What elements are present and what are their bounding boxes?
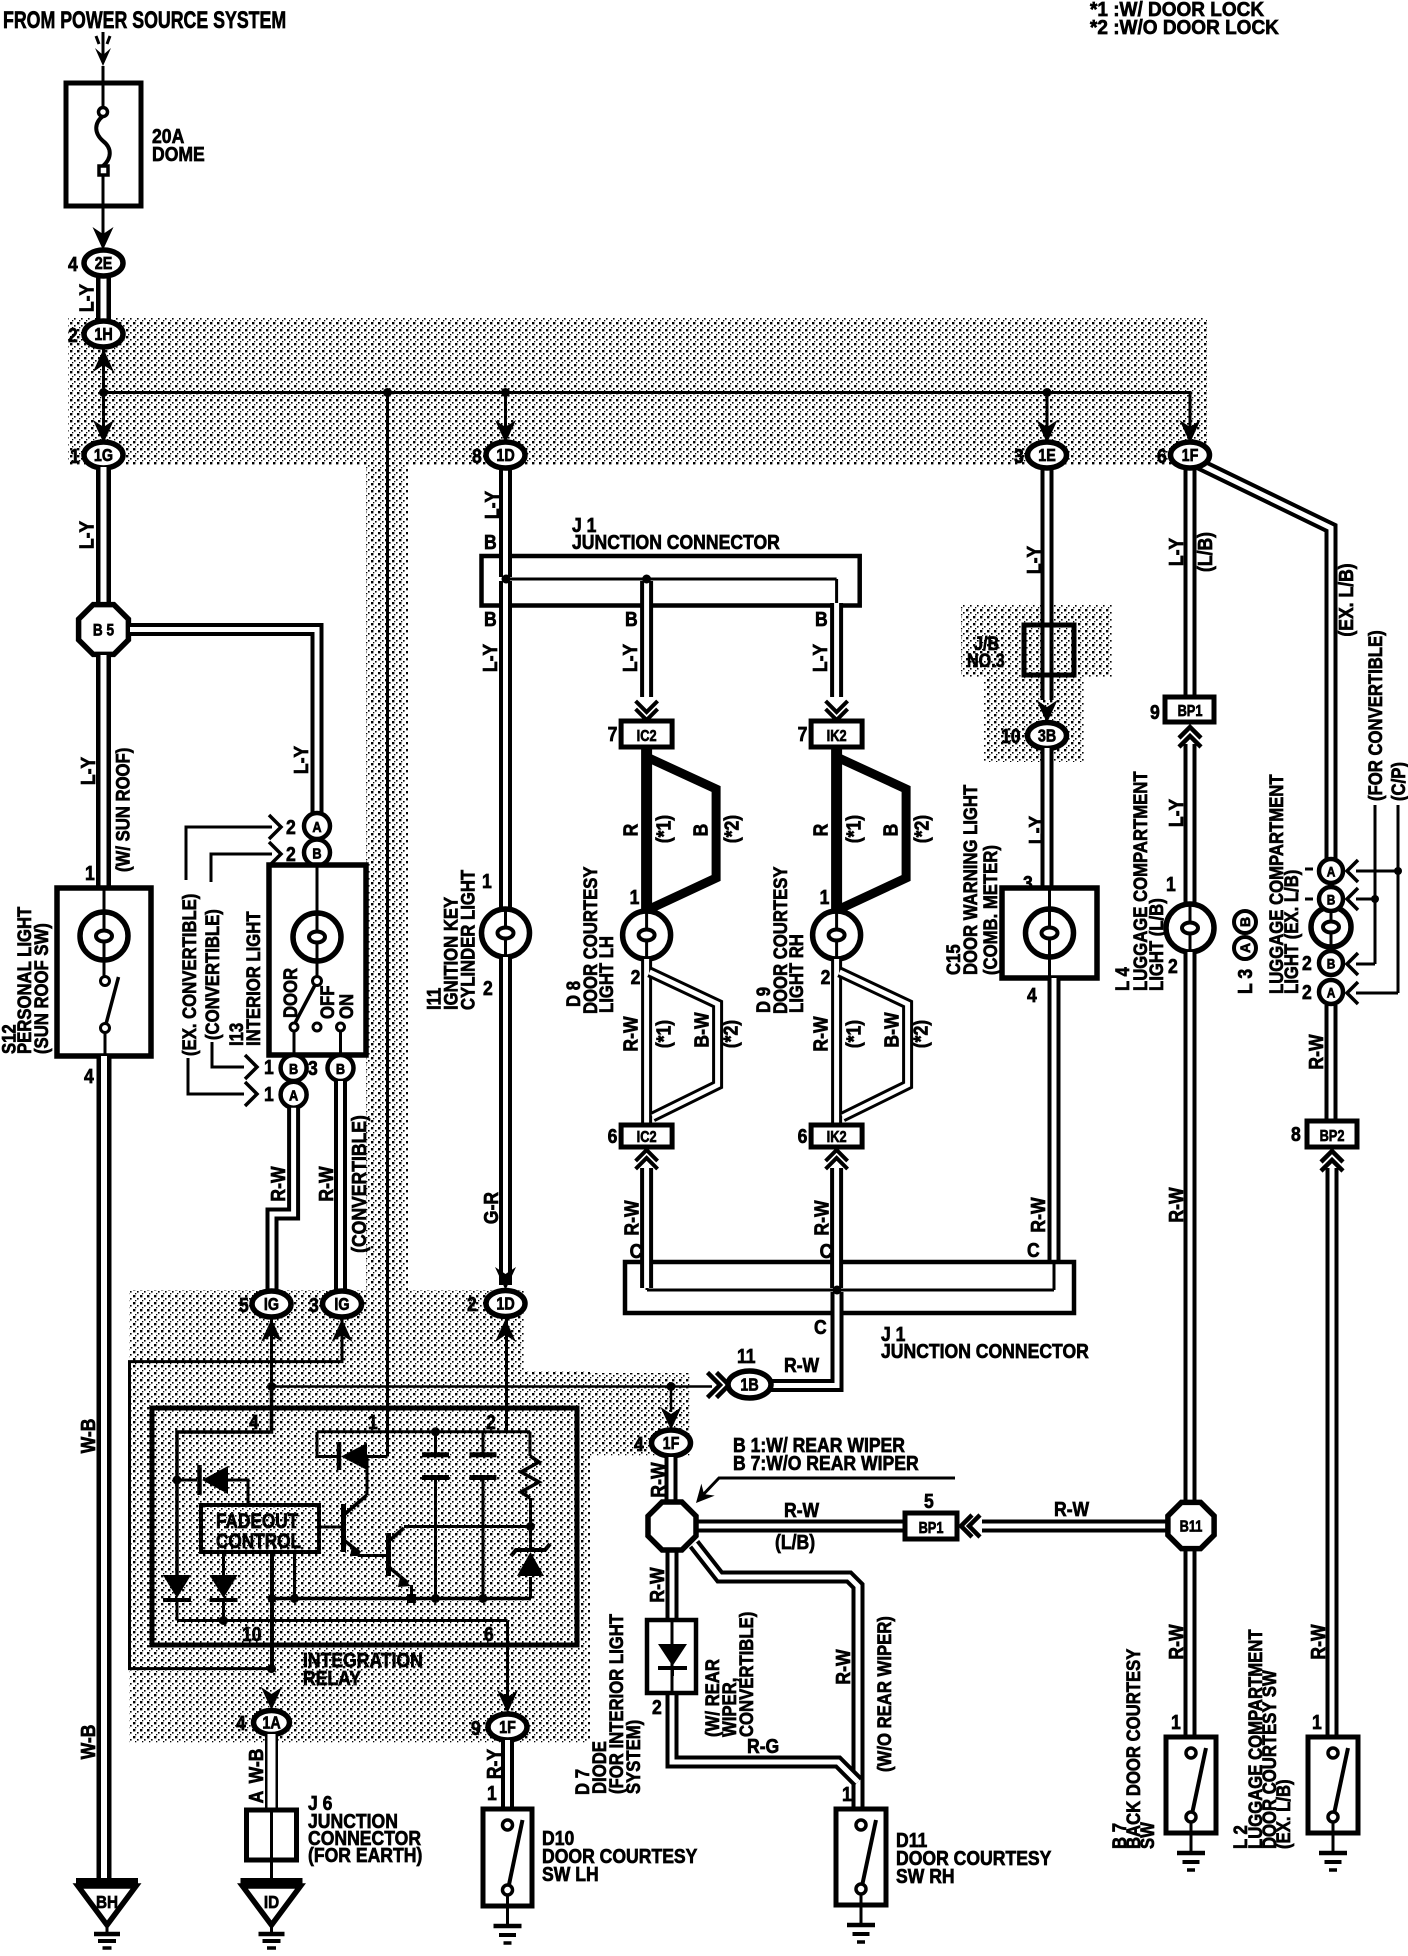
svg-text:1H: 1H <box>94 326 112 345</box>
svg-text:B: B <box>879 824 901 837</box>
svg-text:C: C <box>814 1316 827 1338</box>
svg-text:JUNCTION CONNECTOR: JUNCTION CONNECTOR <box>881 1340 1089 1362</box>
svg-text:(*2): (*2) <box>719 1020 741 1048</box>
svg-text:A: A <box>289 1087 298 1104</box>
svg-text:C: C <box>1027 1239 1040 1261</box>
svg-text:(*2): (*2) <box>910 815 932 843</box>
svg-text:R-W: R-W <box>267 1166 289 1201</box>
svg-text:2: 2 <box>286 843 296 865</box>
svg-text:(*1): (*1) <box>652 1020 674 1048</box>
svg-text:4: 4 <box>249 1411 259 1433</box>
svg-text:R-W: R-W <box>619 1016 641 1051</box>
svg-text:LIGHT (L/B): LIGHT (L/B) <box>1146 898 1167 991</box>
svg-text:W-B: W-B <box>77 1725 99 1760</box>
svg-text:(*1): (*1) <box>842 815 864 843</box>
svg-text:*2 :W/O DOOR LOCK: *2 :W/O DOOR LOCK <box>1090 17 1279 40</box>
svg-text:L-Y: L-Y <box>479 643 501 672</box>
svg-text:A: A <box>1237 943 1253 953</box>
svg-text:6: 6 <box>608 1125 618 1147</box>
svg-text:1: 1 <box>264 1083 274 1105</box>
svg-text:2: 2 <box>286 816 296 838</box>
svg-text:IK2: IK2 <box>827 728 847 746</box>
svg-text:(*1): (*1) <box>842 1020 864 1048</box>
svg-text:1D: 1D <box>496 1295 514 1314</box>
svg-text:BACK DOOR COURTESY: BACK DOOR COURTESY <box>1123 1649 1144 1849</box>
svg-text:B 7:W/O REAR WIPER: B 7:W/O REAR WIPER <box>733 1452 919 1474</box>
svg-text:L-Y: L-Y <box>1165 798 1187 827</box>
svg-text:1F: 1F <box>1182 447 1199 466</box>
svg-text:R-Y: R-Y <box>483 1748 505 1779</box>
svg-text:SW: SW <box>1137 1822 1158 1849</box>
svg-text:(*1): (*1) <box>652 815 674 843</box>
svg-text:L-Y: L-Y <box>1023 545 1045 574</box>
svg-text:W-B: W-B <box>245 1749 267 1784</box>
svg-text:B: B <box>484 608 497 630</box>
svg-text:R-W: R-W <box>832 1649 854 1684</box>
svg-text:B11: B11 <box>1180 1518 1203 1536</box>
svg-text:B-W: B-W <box>690 1012 712 1047</box>
svg-text:R-W: R-W <box>1305 1034 1327 1069</box>
svg-text:L-Y: L-Y <box>619 643 641 672</box>
svg-text:IK2: IK2 <box>827 1129 847 1147</box>
svg-text:RELAY: RELAY <box>303 1667 361 1689</box>
svg-text:R-W: R-W <box>1027 1197 1049 1232</box>
svg-text:(SUN ROOF SW): (SUN ROOF SW) <box>31 923 52 1054</box>
svg-text:BH: BH <box>96 1892 118 1912</box>
svg-text:2: 2 <box>486 1411 496 1433</box>
svg-text:B: B <box>625 608 638 630</box>
svg-text:DOOR WARNING LIGHT: DOOR WARNING LIGHT <box>960 785 981 975</box>
svg-text:(W/ SUN ROOF): (W/ SUN ROOF) <box>112 748 133 872</box>
svg-text:1E: 1E <box>1038 447 1056 466</box>
svg-text:R: R <box>619 823 641 836</box>
svg-text:(C/P): (C/P) <box>1388 762 1408 801</box>
svg-text:SW RH: SW RH <box>896 1865 955 1887</box>
svg-text:B: B <box>312 844 321 861</box>
svg-text:1: 1 <box>70 445 80 467</box>
svg-text:INTERIOR LIGHT: INTERIOR LIGHT <box>243 911 264 1046</box>
svg-text:3: 3 <box>1014 445 1024 467</box>
svg-text:CYLINDER LIGHT: CYLINDER LIGHT <box>457 870 478 1010</box>
svg-text:1A: 1A <box>262 1714 281 1733</box>
svg-text:R-W: R-W <box>646 1567 668 1602</box>
svg-text:DOOR: DOOR <box>280 968 301 1018</box>
svg-text:8: 8 <box>1291 1123 1301 1145</box>
svg-text:ON: ON <box>336 994 357 1019</box>
svg-text:B: B <box>484 531 497 553</box>
svg-text:IC2: IC2 <box>637 728 657 746</box>
svg-text:2: 2 <box>821 966 831 988</box>
svg-text:2E: 2E <box>95 255 113 274</box>
svg-text:R-W: R-W <box>647 1462 669 1497</box>
svg-text:R-W: R-W <box>1165 1624 1187 1659</box>
svg-text:1B: 1B <box>740 1376 758 1395</box>
svg-text:R-W: R-W <box>1307 1624 1329 1659</box>
svg-text:6: 6 <box>1157 445 1167 467</box>
svg-text:1: 1 <box>264 1056 274 1078</box>
svg-text:2: 2 <box>652 1696 662 1718</box>
svg-text:5: 5 <box>924 1490 934 1512</box>
svg-text:R-W: R-W <box>810 1200 832 1235</box>
svg-text:B: B <box>1327 892 1336 908</box>
svg-text:1F: 1F <box>663 1435 680 1454</box>
svg-text:2: 2 <box>467 1293 477 1315</box>
svg-text:BP1: BP1 <box>919 1520 944 1538</box>
svg-text:(L/B): (L/B) <box>1194 532 1216 572</box>
svg-text:L-Y: L-Y <box>77 756 99 785</box>
svg-text:2: 2 <box>483 977 493 999</box>
svg-text:3: 3 <box>309 1294 319 1316</box>
svg-text:(L/B): (L/B) <box>775 1531 815 1553</box>
svg-text:1: 1 <box>487 1782 497 1804</box>
svg-text:R-W: R-W <box>784 1499 819 1521</box>
svg-text:JUNCTION CONNECTOR: JUNCTION CONNECTOR <box>572 531 780 553</box>
svg-text:(CONVERTIBLE): (CONVERTIBLE) <box>348 1115 370 1253</box>
svg-text:6: 6 <box>484 1623 494 1645</box>
svg-text:SW LH: SW LH <box>542 1863 599 1885</box>
svg-text:NO.3: NO.3 <box>967 650 1005 672</box>
svg-text:3B: 3B <box>1038 727 1056 746</box>
svg-text:6: 6 <box>798 1125 808 1147</box>
svg-text:DOME: DOME <box>152 143 205 165</box>
svg-text:R-W: R-W <box>315 1166 337 1201</box>
svg-text:3: 3 <box>308 1057 318 1079</box>
svg-text:A: A <box>312 818 321 835</box>
svg-text:(*2): (*2) <box>909 1020 931 1048</box>
svg-text:7: 7 <box>608 723 618 745</box>
svg-text:B: B <box>1327 956 1336 972</box>
svg-text:R: R <box>809 823 831 836</box>
svg-text:BP2: BP2 <box>1320 1128 1345 1146</box>
svg-text:4: 4 <box>68 253 78 275</box>
svg-text:R-G: R-G <box>747 1735 779 1757</box>
svg-text:(FOR EARTH): (FOR EARTH) <box>308 1844 422 1866</box>
svg-text:11: 11 <box>737 1345 756 1367</box>
svg-text:L-Y: L-Y <box>290 745 312 774</box>
svg-text:SYSTEM): SYSTEM) <box>623 1720 644 1794</box>
svg-text:B: B <box>689 824 711 837</box>
svg-text:R-W: R-W <box>620 1200 642 1235</box>
svg-text:A: A <box>1327 985 1336 1001</box>
svg-text:L-Y: L-Y <box>75 283 97 312</box>
svg-text:1: 1 <box>630 886 640 908</box>
svg-text:R-W: R-W <box>1165 1187 1187 1222</box>
svg-text:L-Y: L-Y <box>1025 815 1047 844</box>
svg-text:1: 1 <box>482 870 492 892</box>
svg-text:(W/O REAR WIPER): (W/O REAR WIPER) <box>874 1616 895 1772</box>
svg-text:(*2): (*2) <box>720 815 742 843</box>
svg-text:1: 1 <box>85 862 95 884</box>
svg-text:9: 9 <box>471 1717 481 1739</box>
svg-text:(COMB. METER): (COMB. METER) <box>980 845 1001 975</box>
svg-text:1: 1 <box>1312 1711 1322 1733</box>
svg-text:7: 7 <box>798 723 808 745</box>
svg-text:R-W: R-W <box>1054 1498 1089 1520</box>
svg-text:1: 1 <box>368 1411 378 1433</box>
svg-text:4: 4 <box>236 1712 246 1734</box>
svg-text:R-W: R-W <box>784 1354 819 1376</box>
svg-text:ID: ID <box>264 1892 279 1912</box>
svg-text:LIGHT (EX. L/B): LIGHT (EX. L/B) <box>1281 870 1302 994</box>
svg-text:2: 2 <box>1302 981 1312 1003</box>
svg-text:2: 2 <box>68 324 78 346</box>
svg-text:BP1: BP1 <box>1178 703 1203 721</box>
svg-text:IC2: IC2 <box>637 1129 657 1147</box>
svg-text:L-Y: L-Y <box>809 643 831 672</box>
svg-text:LIGHT LH: LIGHT LH <box>596 936 617 1013</box>
svg-text:G-R: G-R <box>480 1192 502 1225</box>
svg-text:10: 10 <box>242 1623 262 1645</box>
svg-text:A: A <box>1327 864 1336 880</box>
svg-text:5: 5 <box>239 1294 249 1316</box>
svg-text:1F: 1F <box>499 1719 516 1738</box>
svg-text:IG: IG <box>334 1296 349 1315</box>
svg-text:8: 8 <box>472 445 482 467</box>
svg-text:4: 4 <box>84 1065 94 1087</box>
svg-text:IG: IG <box>264 1296 279 1315</box>
svg-text:9: 9 <box>1150 701 1160 723</box>
svg-text:2: 2 <box>1168 955 1178 977</box>
svg-text:W-B: W-B <box>77 1419 99 1454</box>
svg-text:A: A <box>245 1790 267 1803</box>
svg-text:1: 1 <box>842 1783 852 1805</box>
svg-text:1: 1 <box>820 886 830 908</box>
svg-text:1G: 1G <box>94 447 113 466</box>
svg-text:1: 1 <box>1166 873 1176 895</box>
svg-text:2: 2 <box>631 966 641 988</box>
svg-text:(CONVERTIBLE): (CONVERTIBLE) <box>202 909 223 1040</box>
svg-text:L-Y: L-Y <box>1165 537 1187 566</box>
svg-text:10: 10 <box>1001 725 1021 747</box>
svg-text:B: B <box>336 1060 345 1077</box>
svg-text:L 3: L 3 <box>1234 969 1256 994</box>
svg-text:1D: 1D <box>496 447 514 466</box>
svg-text:R-W: R-W <box>809 1016 831 1051</box>
svg-text:B: B <box>289 1060 298 1077</box>
svg-text:CONVERTIBLE): CONVERTIBLE) <box>736 1612 757 1737</box>
svg-text:2: 2 <box>1302 952 1312 974</box>
svg-text:B: B <box>1237 917 1253 927</box>
svg-text:B 5: B 5 <box>93 621 115 640</box>
svg-text:(EX. L/B): (EX. L/B) <box>1273 1779 1294 1849</box>
svg-text:4: 4 <box>1027 984 1037 1006</box>
svg-text:CONTROL: CONTROL <box>216 1531 301 1554</box>
svg-text:4: 4 <box>634 1433 644 1455</box>
svg-text:L-Y: L-Y <box>75 520 97 549</box>
svg-text:B-W: B-W <box>880 1012 902 1047</box>
svg-text:1: 1 <box>1171 1711 1181 1733</box>
svg-text:B: B <box>815 608 828 630</box>
svg-text:(EX. CONVERTIBLE): (EX. CONVERTIBLE) <box>179 894 200 1056</box>
svg-text:LIGHT RH: LIGHT RH <box>786 934 807 1013</box>
svg-text:(EX. L/B): (EX. L/B) <box>1335 563 1357 636</box>
svg-text:(FOR CONVERTIBLE): (FOR CONVERTIBLE) <box>1365 630 1386 801</box>
svg-text:FROM POWER SOURCE SYSTEM: FROM POWER SOURCE SYSTEM <box>3 8 286 34</box>
